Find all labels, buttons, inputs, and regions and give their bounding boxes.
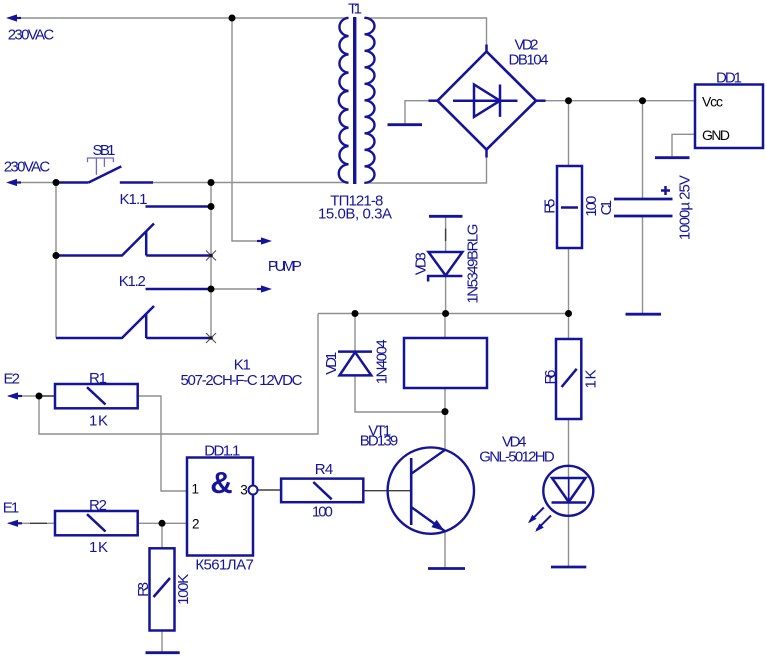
svg-text:230VAC: 230VAC xyxy=(8,27,55,44)
svg-text:1K: 1K xyxy=(89,413,108,430)
svg-text:100K: 100K xyxy=(175,574,192,605)
svg-text:PUMP: PUMP xyxy=(268,258,302,275)
svg-text:R4: R4 xyxy=(315,461,334,478)
svg-text:1N4004: 1N4004 xyxy=(374,339,391,384)
svg-text:DD1.1: DD1.1 xyxy=(204,443,240,460)
svg-text:R2: R2 xyxy=(89,497,107,514)
svg-text:GNL-5012HD: GNL-5012HD xyxy=(479,449,555,466)
svg-text:100: 100 xyxy=(312,503,333,520)
svg-text:230VAC: 230VAC xyxy=(4,159,51,176)
svg-text:2: 2 xyxy=(192,517,200,532)
svg-text:E1: E1 xyxy=(3,500,20,517)
svg-text:BD139: BD139 xyxy=(360,432,399,449)
svg-text:K1.2: K1.2 xyxy=(119,273,146,290)
svg-text:R5: R5 xyxy=(542,199,559,214)
svg-text:1000µ 25V: 1000µ 25V xyxy=(677,175,694,240)
svg-text:E2: E2 xyxy=(3,371,20,388)
svg-text:1K: 1K xyxy=(583,370,600,389)
svg-text:3: 3 xyxy=(240,483,248,498)
svg-text:T1: T1 xyxy=(348,1,362,18)
svg-text:1K: 1K xyxy=(89,539,108,556)
svg-text:R1: R1 xyxy=(89,370,107,387)
svg-text:DD1: DD1 xyxy=(716,69,742,86)
svg-text:SB1: SB1 xyxy=(93,142,116,159)
svg-text:GND: GND xyxy=(702,127,730,143)
svg-text:507-2CH-F-C 12VDC: 507-2CH-F-C 12VDC xyxy=(181,372,303,389)
svg-text:R6: R6 xyxy=(542,370,559,385)
svg-text:&: & xyxy=(210,465,232,500)
svg-text:VD3: VD3 xyxy=(413,252,430,275)
svg-text:R3: R3 xyxy=(135,582,152,597)
svg-text:C1: C1 xyxy=(598,200,615,216)
svg-text:1N5349BRLG: 1N5349BRLG xyxy=(465,224,482,304)
svg-text:1: 1 xyxy=(192,482,200,497)
svg-text:Vcc: Vcc xyxy=(702,94,723,110)
svg-text:K1: K1 xyxy=(234,356,251,373)
svg-text:VD1: VD1 xyxy=(323,352,340,375)
svg-text:15.0В, 0.3А: 15.0В, 0.3А xyxy=(318,206,392,223)
svg-text:К561ЛА7: К561ЛА7 xyxy=(195,557,254,574)
svg-text:K1.1: K1.1 xyxy=(120,191,148,208)
svg-text:DB104: DB104 xyxy=(509,51,549,68)
